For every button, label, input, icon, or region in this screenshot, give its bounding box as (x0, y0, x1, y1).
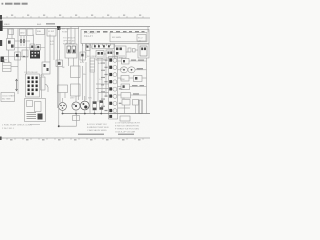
top ruler ticks (7, 16, 143, 18)
left callout box (1, 93, 15, 102)
dark fuse block (57, 26, 60, 30)
wire vertical battery feed (17, 28, 19, 94)
fuse box C (36, 29, 45, 35)
cluster double box right (138, 44, 149, 58)
resistor tall box (90, 58, 95, 72)
ECU big box (81, 30, 149, 44)
sensor row 4 (121, 84, 130, 90)
main relay box (65, 44, 77, 58)
wire along grid box (41, 74, 43, 98)
ECU connector strip (109, 57, 118, 120)
title text (2, 3, 28, 5)
pin1 dark tip (20, 39, 21, 43)
strip pin number smudges (101, 63, 105, 107)
noise filter box (56, 60, 63, 67)
sensor row 2 ovals (120, 67, 127, 73)
small dot box a (30, 44, 35, 50)
right vertical (146, 58, 148, 114)
wire relay feed a (7, 28, 9, 38)
dense cluster: narrow box 1 (86, 44, 91, 51)
small box cluster b (22, 50, 28, 57)
wire horizontal link (15, 40, 31, 42)
ECU inner box (110, 32, 147, 42)
check connector dark block (30, 51, 40, 59)
right column box2 (71, 84, 81, 96)
label smudge above IG SW (46, 23, 55, 24)
small box cluster a (15, 52, 21, 60)
injector component 2 (100, 101, 103, 110)
small box above legend (120, 116, 130, 121)
sensor row 5 (121, 93, 131, 99)
battery box (3, 63, 12, 72)
left edge dark mark 2 (0, 40, 2, 46)
sensor drop wires (124, 105, 126, 114)
wire vertical pin1 (20, 36, 22, 47)
wire horizontal link mid (15, 47, 45, 49)
battery wire (11, 66, 18, 68)
wire vertical (33, 35, 35, 51)
bottom ruler ticks (7, 138, 143, 140)
ECU box pin row top (84, 31, 145, 33)
long vertical at x78.5 (78, 27, 80, 101)
vertical wires mid-right (82, 66, 84, 100)
box below starter (73, 116, 80, 121)
fuse box A (9, 29, 14, 35)
top ruler line (0, 17, 150, 19)
ISC valve box (58, 85, 68, 93)
pin2 dark tip (23, 39, 24, 43)
fuse box B2 (27, 29, 33, 36)
left edge connector block (0, 21, 3, 32)
cluster flat box (92, 44, 114, 49)
ECU inner sub-box (137, 35, 146, 42)
wire vertical (53, 36, 55, 60)
connector grid box (26, 74, 40, 97)
small dot box b (36, 45, 41, 51)
ground link (59, 125, 77, 127)
ECU box pin stubs (83, 44, 115, 47)
cluster box lower-right (106, 50, 113, 58)
igniter circle (80, 101, 89, 110)
cluster box lower-left (96, 51, 104, 61)
horizontal links to ECU strip (96, 83, 109, 85)
wire bus to ECU inner box (147, 27, 149, 33)
second bus wire (0, 27, 79, 29)
bottom ruler numbers (10, 139, 141, 140)
top ruler numbers (11, 15, 141, 16)
noise filter core (58, 62, 61, 65)
lower link wire (4, 56, 28, 58)
twisted pair vertical (57, 28, 59, 108)
starter circle (72, 102, 80, 110)
wire vertical (26, 36, 28, 75)
injector component 1 (93, 102, 97, 111)
big lower-left component (25, 99, 46, 122)
relay pins vertical (67, 28, 69, 44)
wire vertical (49, 35, 51, 63)
small box left of cluster (80, 52, 86, 60)
ground drop (58, 67, 60, 127)
mid small box2 (41, 77, 46, 90)
right lower small boxes (122, 100, 130, 106)
fuse box D (47, 29, 56, 37)
left edge dark mark 3 (1, 57, 4, 63)
sensor row 3 (121, 76, 129, 82)
cluster box mid (115, 46, 127, 58)
fuse box B (20, 29, 27, 36)
bottom ruler line (0, 137, 150, 139)
mid component box (42, 62, 50, 74)
wires strip to rows (118, 60, 122, 62)
page arrow symbol (15, 79, 17, 91)
top-left corner mark (0, 15, 2, 20)
cluster link wires (90, 46, 92, 48)
wire hook from VSV (45, 84, 48, 92)
sensor row 1 (122, 59, 130, 65)
wire relay feed b (11, 28, 13, 38)
wire relay to battery (8, 50, 10, 63)
legend bottom extra row (78, 134, 104, 135)
main bus wire top (0, 26, 150, 28)
relay box (7, 39, 15, 51)
wire vertical pin2 (23, 36, 25, 47)
wire vertical (44, 28, 46, 62)
right column box1 (71, 66, 81, 78)
cluster small marks (128, 48, 131, 52)
bottom-left corner mark (0, 137, 2, 141)
ground bus bottom (63, 113, 151, 115)
distributor circle (59, 103, 67, 111)
verticals below ECU box (82, 44, 84, 63)
